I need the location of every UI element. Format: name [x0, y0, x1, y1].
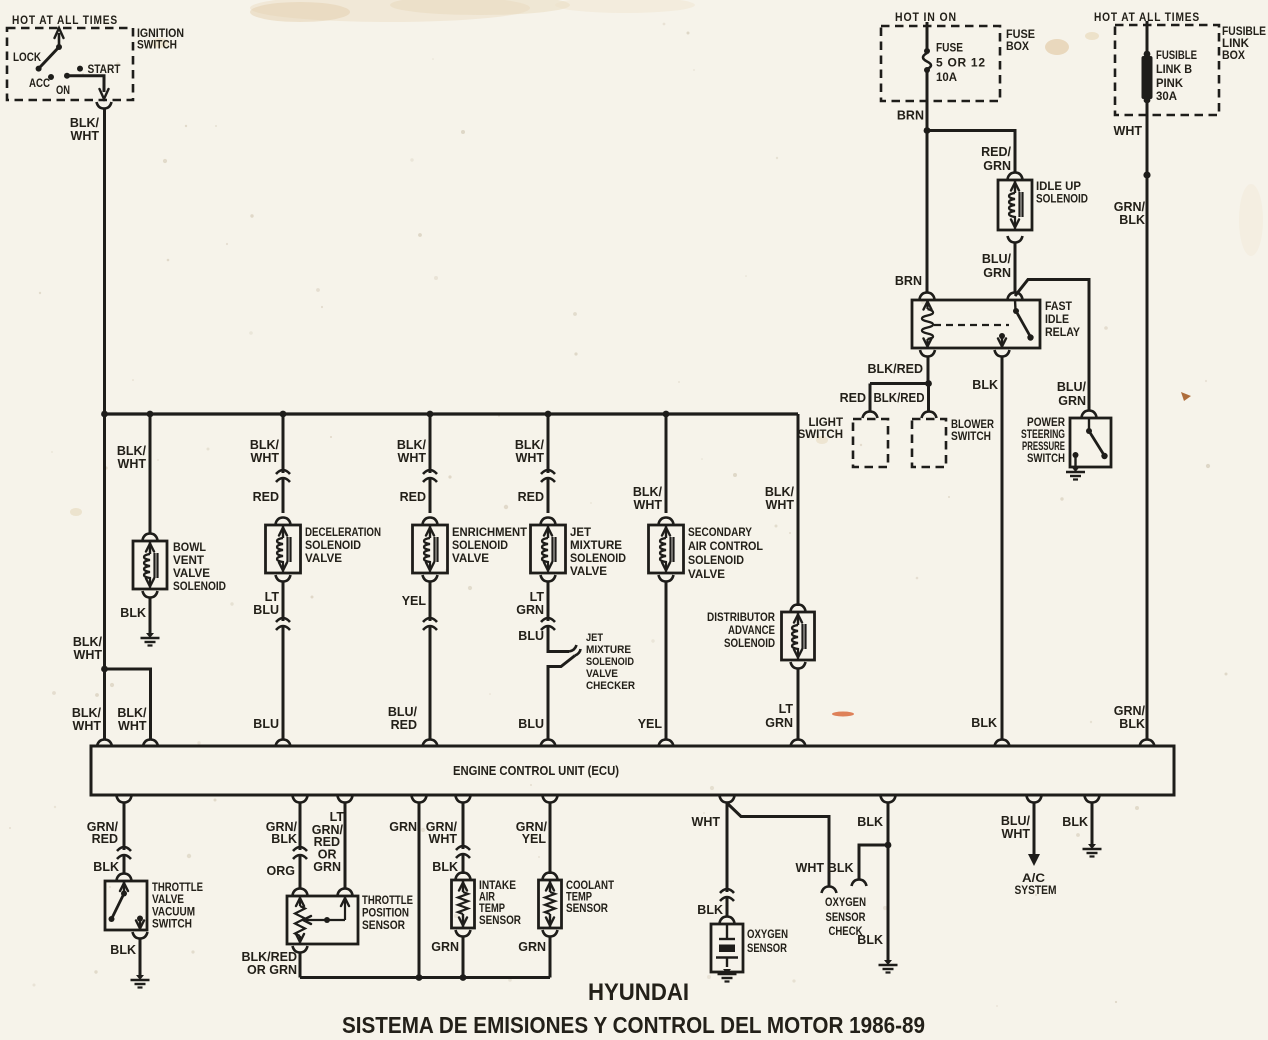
connector BLK at ECU [995, 740, 1010, 747]
svg-text:ADVANCE: ADVANCE [728, 625, 775, 637]
svg-text:SOLENOID: SOLENOID [1036, 194, 1088, 206]
inline connector (deceleration output) [275, 621, 291, 626]
svg-text:TEMP: TEMP [479, 903, 505, 915]
fast idle relay coil [926, 300, 928, 309]
svg-text:LT: LT [330, 810, 345, 824]
wire WHT fusible link down [1146, 99, 1149, 175]
oxygen sensor box [711, 924, 743, 972]
svg-text:FUSIBLE: FUSIBLE [1156, 50, 1197, 62]
svg-text:RED: RED [840, 391, 866, 405]
inline connector (deceleration feed) [275, 473, 291, 478]
svg-text:ENGINE CONTROL UNIT (ECU): ENGINE CONTROL UNIT (ECU) [453, 764, 619, 778]
svg-text:BLK: BLK [1119, 717, 1145, 731]
wire BLK bowl vent to ground [149, 598, 152, 634]
wire branch to second ECU pin [105, 669, 151, 740]
connector TPS output [293, 946, 308, 953]
inline connector (TVVS) [116, 850, 132, 855]
connector ECU pin GRN [412, 796, 427, 803]
svg-text:5 OR 12: 5 OR 12 [936, 56, 985, 70]
svg-text:VENT: VENT [173, 555, 204, 567]
svg-text:JET: JET [586, 632, 603, 644]
enrichment solenoid valve [413, 525, 448, 573]
bottom bus wire [300, 976, 550, 979]
svg-text:IDLE UP: IDLE UP [1036, 181, 1081, 193]
svg-text:OR GRN: OR GRN [247, 963, 297, 977]
svg-text:YEL: YEL [522, 832, 547, 846]
wire BLU/GRN idle up solenoid to relay [1014, 243, 1017, 293]
wire LT GRN/RED OR GRN to TPS [344, 803, 347, 889]
connector GRN/BLK at ECU [1140, 740, 1155, 747]
inline connector (TPS) [292, 850, 308, 855]
wire bus end down to distributor advance solenoid [797, 414, 800, 606]
wire BLU/GRN relay to power steering switch [1015, 280, 1089, 412]
fast idle relay dashed link [934, 324, 1009, 326]
engine control unit (ECU) box [91, 746, 1174, 795]
wire bus to deceleration solenoid [282, 414, 285, 513]
svg-text:GRN: GRN [431, 940, 459, 954]
svg-text:AIR: AIR [479, 892, 496, 904]
svg-text:BLK: BLK [697, 903, 723, 917]
svg-text:BLK: BLK [432, 860, 458, 874]
throttle valve vacuum switch box [105, 881, 147, 930]
svg-text:ENRICHMENT: ENRICHMENT [452, 527, 527, 539]
svg-text:VALVE: VALVE [152, 894, 184, 906]
svg-text:GRN: GRN [983, 266, 1011, 280]
wire BLK branch to oxygen sensor check [859, 845, 888, 880]
svg-text:SOLENOID: SOLENOID [724, 638, 775, 650]
svg-text:BLK/: BLK/ [633, 485, 663, 499]
idle up solenoid U2 [998, 180, 1032, 230]
svg-text:BLK/: BLK/ [72, 706, 102, 720]
connector at oxygen sensor [720, 917, 735, 924]
svg-text:RELAY: RELAY [1045, 325, 1080, 339]
svg-text:BLK/RED: BLK/RED [874, 391, 925, 405]
svg-text:GRN: GRN [389, 820, 417, 834]
svg-text:SWITCH: SWITCH [798, 429, 843, 441]
deceleration solenoid valve [266, 525, 301, 573]
svg-text:WHT: WHT [118, 719, 147, 733]
wire GRN IAT to bottom bus [462, 937, 465, 978]
svg-text:WHT: WHT [766, 498, 795, 512]
svg-text:BOWL: BOWL [173, 542, 206, 554]
wire branch to light switch [870, 382, 928, 385]
ground at BLK wire [884, 960, 892, 965]
svg-text:SOLENOID: SOLENOID [570, 553, 626, 565]
connector relay coil output [920, 350, 935, 357]
connector bowl vent output [143, 591, 158, 598]
intake air temp sensor [452, 880, 475, 928]
svg-text:BLK/RED: BLK/RED [867, 362, 923, 376]
svg-text:YEL: YEL [402, 594, 427, 608]
svg-text:SWITCH: SWITCH [951, 431, 991, 443]
inline connector (jet mixture output) [540, 621, 556, 626]
svg-text:SWITCH: SWITCH [137, 40, 177, 52]
svg-text:THROTTLE: THROTTLE [362, 895, 413, 907]
svg-text:BRN: BRN [897, 109, 924, 123]
svg-text:VALVE: VALVE [586, 668, 618, 680]
connector ECU pin BLK (ground wire) [881, 796, 896, 803]
svg-text:VALVE: VALVE [305, 553, 342, 565]
coolant temp sensor [539, 880, 562, 928]
svg-text:BLK: BLK [120, 606, 146, 620]
jet mixture solenoid valve [531, 525, 566, 573]
throttle position sensor wiper [344, 896, 346, 920]
svg-text:MIXTURE: MIXTURE [586, 644, 631, 656]
svg-text:VALVE: VALVE [452, 553, 489, 565]
connector ECU pin GRN/BLK [293, 796, 308, 803]
connector IAT output [456, 930, 471, 937]
connector at idle up solenoid top [1008, 173, 1023, 180]
ignition contact START [77, 66, 83, 72]
svg-text:LT: LT [530, 590, 545, 604]
ground at oxygen sensor [723, 969, 731, 974]
svg-text:10A: 10A [936, 70, 957, 84]
svg-text:SOLENOID: SOLENOID [173, 581, 226, 593]
svg-text:BLK: BLK [971, 716, 997, 730]
svg-text:STEERING: STEERING [1021, 429, 1065, 441]
svg-text:GRN: GRN [983, 159, 1011, 173]
connector at distributor advance solenoid [791, 605, 806, 612]
bottom bus junction IAT [460, 974, 467, 981]
connector at TPS left pin [293, 889, 308, 896]
inline connector (IAT) [455, 849, 471, 854]
svg-text:LOCK: LOCK [13, 50, 41, 64]
wire jet mixture to checker tap [548, 582, 569, 652]
svg-text:RED: RED [253, 490, 279, 504]
svg-text:GRN: GRN [765, 716, 793, 730]
junction BLK/RED [925, 380, 932, 387]
svg-text:WHT: WHT [692, 815, 721, 829]
svg-text:HYUNDAI: HYUNDAI [588, 979, 689, 1006]
connector distributor advance at ECU [791, 740, 806, 747]
svg-text:WHT: WHT [1114, 124, 1143, 138]
svg-text:LINK B: LINK B [1156, 64, 1192, 76]
svg-text:BLK/: BLK/ [515, 438, 545, 452]
connector ECU pin BLK (short ground) [1085, 796, 1100, 803]
jet mixture checker tap lower lead [548, 656, 575, 741]
svg-text:HOT AT ALL TIMES: HOT AT ALL TIMES [12, 13, 118, 27]
bus junction jet mixture [545, 411, 552, 418]
wire GRN/BLK to ECU [1146, 175, 1149, 740]
svg-text:WHT: WHT [73, 719, 102, 733]
svg-text:BLK: BLK [110, 943, 136, 957]
connector at enrichment solenoid [423, 518, 438, 525]
svg-text:BRN: BRN [895, 274, 922, 288]
connector BLK/WHT pin1 at ECU [97, 740, 112, 747]
svg-text:SOLENOID: SOLENOID [586, 656, 634, 668]
svg-text:WHT: WHT [71, 129, 100, 143]
svg-text:VALVE: VALVE [173, 568, 210, 580]
ignition contact ON [64, 73, 70, 79]
svg-text:BOX: BOX [1006, 41, 1029, 53]
inline connector (enrichment feed) [422, 473, 438, 478]
connector at bowl vent solenoid [143, 534, 158, 541]
ground at power steering switch [1072, 467, 1080, 472]
svg-text:BLK: BLK [93, 860, 119, 874]
wire bus to jet mixture solenoid [547, 414, 550, 513]
svg-text:WHT: WHT [796, 861, 825, 875]
wire BLK/RED relay coil to junction [927, 357, 930, 384]
bus junction bowl vent [147, 411, 154, 418]
secondary air control solenoid valve [649, 525, 684, 573]
wire bus to enrichment solenoid [429, 414, 432, 513]
junction on WHT/GRN-BLK wire [1143, 171, 1150, 178]
wire GRN to bottom bus [418, 803, 421, 978]
svg-text:WHT: WHT [398, 451, 427, 465]
inline connector (enrichment output) [422, 621, 438, 626]
connector ECU pin GRN/YEL [543, 796, 558, 803]
svg-text:BLK: BLK [271, 832, 297, 846]
svg-text:JET: JET [570, 527, 591, 539]
svg-text:GRN: GRN [1058, 394, 1086, 408]
svg-text:ORG: ORG [267, 864, 295, 878]
inline connector (jet mixture feed) [540, 473, 556, 478]
ground at bowl vent solenoid [146, 633, 154, 638]
svg-text:BLK/: BLK/ [250, 438, 280, 452]
svg-text:BLK/: BLK/ [70, 116, 100, 130]
svg-text:BLK: BLK [1119, 213, 1145, 227]
connector enrichment at ECU [423, 740, 438, 747]
wire WHT to oxygen sensor [726, 803, 729, 916]
svg-text:BLOWER: BLOWER [951, 419, 995, 431]
wire WHT branch to oxygen sensor check [728, 804, 829, 887]
svg-text:RED: RED [518, 490, 544, 504]
svg-text:BLK/: BLK/ [397, 438, 427, 452]
power steering pressure switch box [1070, 418, 1111, 467]
svg-text:ACC: ACC [29, 76, 50, 90]
svg-text:BLK: BLK [857, 815, 883, 829]
svg-text:ON: ON [56, 83, 70, 97]
junction oxygen check BLK [885, 842, 892, 849]
fusible link B element [1144, 51, 1151, 58]
svg-text:BLK: BLK [1062, 815, 1088, 829]
svg-text:BLU/: BLU/ [982, 252, 1012, 266]
svg-text:DISTRIBUTOR: DISTRIBUTOR [707, 612, 776, 624]
connector at TPS right pin [338, 889, 353, 896]
throttle position sensor box [287, 896, 358, 944]
svg-text:DECELERATION: DECELERATION [305, 527, 381, 539]
fuse box dashed box [881, 26, 1000, 101]
svg-text:LT: LT [779, 702, 794, 716]
svg-text:FUSE: FUSE [1006, 29, 1035, 41]
fuse F 5 OR 12 [924, 48, 930, 54]
svg-text:WHT: WHT [516, 451, 545, 465]
svg-text:START: START [88, 62, 122, 76]
svg-text:FUSIBLE: FUSIBLE [1222, 26, 1266, 38]
svg-text:GRN: GRN [518, 940, 546, 954]
connector at coolant sensor [543, 873, 558, 880]
wire GRN/BLK to TPS [299, 803, 302, 889]
wire distributor advance to ECU [797, 669, 800, 740]
svg-text:WHT: WHT [634, 498, 663, 512]
svg-text:BLK: BLK [972, 378, 998, 392]
svg-text:YEL: YEL [638, 717, 663, 731]
connector at secondary air solenoid [659, 518, 674, 525]
connector BLK/WHT pin2 at ECU [143, 740, 158, 747]
connector jet mixture at ECU [541, 740, 556, 747]
svg-text:IGNITION: IGNITION [137, 28, 184, 40]
connector TVVS output [133, 932, 148, 939]
fast idle relay switch [1014, 300, 1017, 310]
wire BLK/WHT to ECU pin1 [103, 669, 106, 740]
svg-text:POSITION: POSITION [362, 908, 409, 920]
connector at IAT sensor [456, 873, 471, 880]
connector ECU pin GRN/WHT [456, 796, 471, 803]
fusible link dashed box [1115, 25, 1219, 115]
svg-text:BLK/: BLK/ [117, 444, 147, 458]
svg-text:RED: RED [391, 718, 417, 732]
svg-text:WHT: WHT [1002, 827, 1031, 841]
svg-text:BLU: BLU [253, 603, 279, 617]
svg-text:RED: RED [92, 832, 118, 846]
connector at idle up solenoid bottom [1008, 236, 1023, 243]
wire BLK/WHT ignition to bus [103, 109, 106, 415]
svg-text:LIGHT: LIGHT [809, 417, 844, 429]
svg-text:LINK: LINK [1222, 38, 1250, 50]
ignition switch rotor blade LOCK position [39, 47, 59, 69]
connector ECU pin GRN/RED [117, 796, 132, 803]
connector end oxygen sensor check WHT [822, 887, 837, 894]
svg-text:BLK/: BLK/ [765, 485, 795, 499]
ground at throttle valve vacuum switch [136, 975, 144, 980]
connector at power steering switch [1082, 411, 1097, 418]
svg-text:BLK/RED: BLK/RED [241, 950, 297, 964]
svg-text:BLK/: BLK/ [73, 635, 103, 649]
svg-text:SENSOR: SENSOR [747, 943, 788, 955]
bus junction col1 [101, 411, 108, 418]
svg-text:SENSOR: SENSOR [566, 903, 609, 915]
svg-text:BLU: BLU [253, 717, 279, 731]
svg-text:SENSOR: SENSOR [362, 920, 406, 932]
svg-text:CHECKER: CHECKER [586, 680, 635, 692]
wire RED/GRN branch to idle up solenoid [927, 131, 1015, 173]
wire bus to secondary air solenoid [665, 414, 668, 513]
svg-text:BLK: BLK [857, 933, 883, 947]
wire GRN/YEL to coolant sensor [549, 803, 552, 874]
svg-text:HOT IN ON: HOT IN ON [895, 10, 957, 24]
throttle valve vacuum switch contacts [123, 881, 125, 892]
svg-text:GRN/: GRN/ [1114, 704, 1146, 718]
connector at jet mixture solenoid [541, 518, 556, 525]
oxygen sensor element [726, 924, 728, 939]
svg-text:FAST: FAST [1045, 299, 1073, 313]
svg-text:INTAKE: INTAKE [479, 880, 516, 892]
svg-text:PRESSURE: PRESSURE [1022, 441, 1065, 453]
svg-text:WHT: WHT [74, 648, 103, 662]
connector at ignition switch output [97, 102, 112, 109]
svg-text:IDLE: IDLE [1045, 312, 1069, 326]
wire BLK/WHT bus to lower junction [103, 414, 106, 669]
wire BLK/RED to blower switch [927, 384, 930, 413]
svg-text:WHT: WHT [118, 457, 147, 471]
wire BLK/RED OR GRN TPS to bottom bus [299, 953, 302, 978]
svg-text:BLU/: BLU/ [388, 705, 418, 719]
junction BLK/WHT to ECU [101, 666, 108, 673]
svg-text:LT: LT [265, 590, 280, 604]
connector secondary air output [659, 575, 674, 582]
svg-text:SOLENOID: SOLENOID [452, 540, 508, 552]
wire BLK TVVS to ground [139, 939, 142, 976]
svg-text:WHT: WHT [429, 832, 458, 846]
wire BRN fuse junction to relay [926, 131, 929, 294]
svg-text:BLU/: BLU/ [1001, 814, 1031, 828]
connector relay switch output [995, 350, 1010, 357]
bottom bus junction GRN [416, 974, 423, 981]
connector deceleration output [276, 575, 291, 582]
ignition switch feed arrow to HOT AT ALL TIMES [58, 33, 61, 47]
svg-text:BLU/: BLU/ [1057, 380, 1087, 394]
svg-text:MIXTURE: MIXTURE [570, 540, 622, 552]
svg-text:OXYGEN: OXYGEN [747, 929, 788, 941]
bus junction enrichment [427, 411, 434, 418]
wire BLU/WHT to A/C system [1033, 803, 1036, 855]
svg-text:WHT: WHT [251, 451, 280, 465]
svg-text:SYSTEM: SYSTEM [1015, 885, 1057, 897]
connector ECU pin BLU/WHT [1027, 796, 1042, 803]
wire into fuse [926, 22, 929, 50]
connector at throttle valve vacuum switch [117, 874, 132, 881]
wire BLK to ground [887, 803, 890, 961]
svg-text:THROTTLE: THROTTLE [152, 882, 203, 894]
svg-text:FUSE: FUSE [936, 41, 963, 55]
svg-text:SENSOR: SENSOR [479, 915, 522, 927]
svg-text:AIR CONTROL: AIR CONTROL [688, 541, 763, 553]
fast idle relay box [912, 300, 1040, 348]
connector jet mixture output [541, 575, 556, 582]
throttle position sensor potentiometer [299, 896, 301, 906]
wire BLK relay to ECU [1001, 357, 1004, 740]
connector at light switch [863, 412, 878, 419]
svg-text:GRN: GRN [313, 860, 341, 874]
svg-text:SOLENOID: SOLENOID [688, 555, 744, 567]
svg-text:SWITCH: SWITCH [152, 919, 192, 931]
connector at blower switch [922, 412, 937, 419]
svg-text:SENSOR: SENSOR [826, 912, 867, 924]
blower switch dashed box [912, 419, 946, 467]
svg-text:BLK: BLK [828, 861, 854, 875]
svg-text:BLU: BLU [518, 629, 544, 643]
svg-text:SWITCH: SWITCH [1027, 453, 1065, 465]
connector enrichment output [423, 575, 438, 582]
svg-text:30A: 30A [1156, 91, 1177, 103]
wire deceleration to ECU [282, 582, 285, 740]
wire BRN fuse to junction [926, 70, 929, 131]
svg-text:POWER: POWER [1027, 417, 1066, 429]
svg-text:SOLENOID: SOLENOID [305, 540, 361, 552]
bowl vent valve solenoid [133, 541, 167, 589]
connector BLU/GRN at relay [1008, 293, 1023, 300]
wire enrichment to ECU [429, 582, 432, 740]
svg-text:VACUUM: VACUUM [152, 907, 195, 919]
svg-text:GRN/: GRN/ [1114, 200, 1146, 214]
wire from ON contact out of ignition switch [67, 76, 104, 92]
wire GRN/WHT to IAT sensor [462, 803, 465, 874]
junction fuse output [924, 127, 931, 134]
svg-text:VALVE: VALVE [688, 569, 725, 581]
svg-text:VALVE: VALVE [570, 566, 607, 578]
connector BRN at relay [920, 293, 935, 300]
connector ECU pin LT GRN/RED OR GRN [338, 796, 353, 803]
ground at short BLK wire [1088, 844, 1096, 849]
svg-text:RED/: RED/ [981, 145, 1011, 159]
light switch dashed box [853, 419, 888, 467]
bus junction deceleration [280, 411, 287, 418]
connector secondary air at ECU [659, 740, 674, 747]
inline connector (oxygen sensor) [719, 892, 735, 897]
svg-text:RED: RED [400, 490, 426, 504]
svg-text:TEMP: TEMP [566, 892, 592, 904]
svg-text:COOLANT: COOLANT [566, 880, 614, 892]
